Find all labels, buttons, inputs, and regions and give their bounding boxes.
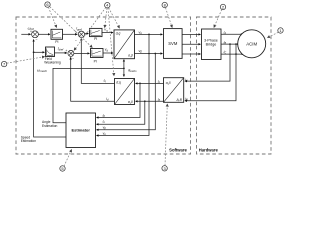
callout circle 1 [278,28,283,33]
junction dots at motor terminals [241,33,243,35]
junction current tap 2 on phase C [235,53,237,55]
summing junction S1 [30,30,38,42]
wire v_α tap to estimator [97,34,150,135]
wire current feedback 1 to Clarke [185,44,230,81]
PI block B5 (id current PI) [91,49,104,64]
wire B3 to SVM (v_β) [135,53,163,55]
junction v_β tap [154,53,156,55]
svg-text:A,B: A,B [175,98,182,102]
PI block B1 (speed PI) [51,29,63,44]
svg-text:Estimation: Estimation [42,124,58,128]
leader 5 to Estimator [64,150,72,167]
wire FW to S3 (i_dref) [55,52,67,54]
Field Weakening block [44,47,61,65]
callout circle 7 [1,61,6,66]
software dashed boundary box [16,17,191,154]
svg-text:d,q: d,q [116,80,121,84]
wire bridge to motor phase C [221,53,242,55]
summing junction S3 [65,49,74,61]
svg-text:Estimation: Estimation [21,139,37,143]
svg-text:α,β: α,β [166,81,171,85]
svg-text:vβ: vβ [103,125,107,130]
wire v_β tap to estimator [97,54,156,130]
leader 4 down to v_q [105,8,107,28]
Park block B6 (α,β to d,q) [115,79,135,105]
svg-text:ωmech: ωmech [37,67,47,73]
callout circle 5 [60,166,65,171]
wire Clarke to Park (i_α) [136,82,164,84]
leader 8 to SVM [166,8,173,28]
wire θ down into B6 [123,68,125,76]
callout circle 8 [162,2,167,7]
wire i_α tap to estimator [97,101,145,124]
wire i_q feedback to S2 [81,39,114,84]
wire B3 to SVM (v_α) [135,33,163,35]
leader 3 to Clarke [165,104,167,166]
svg-text:Bridge: Bridge [206,42,217,46]
wire θ up into B3 [123,60,125,69]
wire B1 to S2 [63,33,78,35]
svg-text:iB: iB [224,40,227,45]
junction on speed line [33,51,35,53]
inverse Park block B3 (d,q to α,β) [114,30,135,59]
wire bridge to motor phase A [221,33,242,35]
svg-text:iB: iB [185,97,188,102]
wire SVM to bridge 1 [182,33,200,35]
junction i_β tap [144,100,146,102]
summing junction S2 [75,30,85,43]
junction current tap 1 on phase B [229,43,231,45]
leader 7 to Field Weakening [7,57,45,64]
svg-text:PI: PI [94,59,97,63]
callout circle 2 [220,4,225,9]
svg-text:d,q: d,q [116,32,121,36]
wire SVM to bridge 2 [182,43,200,45]
wire i_β tap to estimator [97,83,141,117]
leader 2 to bridge [214,9,222,27]
wire Clarke to Park (i_β) [136,100,164,102]
hardware dashed boundary box [197,17,272,154]
svg-text:Estimator: Estimator [71,127,90,132]
svg-text:iA: iA [223,30,226,35]
leader 4 to B3 [109,8,120,29]
svg-text:Hardware: Hardware [199,148,219,153]
svg-text:+: + [30,30,32,34]
wire speed feedback branch into Field Weakening [34,51,45,53]
wire S1 to B1 [38,33,50,35]
svg-text:α,β: α,β [128,100,133,104]
junction v_α crossing dot [148,53,150,55]
svg-text:+: + [65,49,67,53]
svg-text:iC: iC [224,50,227,55]
svg-text:−: − [75,39,77,43]
wire S2 to B2 [85,33,89,35]
svg-text:−: − [35,38,37,42]
wire angle output θ to transforms [53,68,124,122]
svg-text:ACIM: ACIM [246,42,257,47]
motor ACIM [238,30,266,58]
wire bridge to motor phase B [221,43,238,45]
wire B5 to B3 (v_d) [103,52,113,54]
junction i_α tap [139,83,141,85]
wire B2 to B3 (v_q) [102,32,113,34]
PI block B2 (iq current PI) [90,28,103,41]
svg-text:PI: PI [94,37,97,41]
junction current tap 2 crossing [235,43,237,45]
svg-text:iA: iA [185,78,188,83]
callout circle 6 [45,2,50,7]
callout circle 4 [105,2,110,7]
wire SVM to bridge 3 [182,53,200,55]
leader 4 to B6 corner [108,8,114,76]
leader 6 to B1 [48,7,56,28]
junction v_α tap [148,34,150,36]
callout circle 3 [162,166,167,171]
svg-text:vα: vα [103,131,107,136]
wire speed output ω to S1 [34,40,66,138]
wire current feedback 2 to Clarke [185,44,236,101]
wire ω_ref input stub [21,33,30,35]
Clarke block B7 (A,B to α,β) [164,78,184,103]
svg-text:Weakening: Weakening [44,61,61,65]
SVM block [164,29,183,59]
svg-text:α,β: α,β [128,53,133,57]
leader 1 to ACIM [267,32,278,38]
wire i_d feedback to S3 [71,57,115,101]
svg-text:−: − [72,57,74,61]
svg-text:Software: Software [169,148,187,153]
svg-text:PI: PI [55,40,58,44]
junction θ line [123,68,125,70]
Estimator block [66,113,96,148]
leader 4 to S3 [74,7,106,50]
wire S3 to B5 [74,52,90,54]
leader 6 to B5 [50,7,93,48]
3-Phase Bridge block [202,29,222,60]
svg-text:SVM: SVM [168,41,178,46]
